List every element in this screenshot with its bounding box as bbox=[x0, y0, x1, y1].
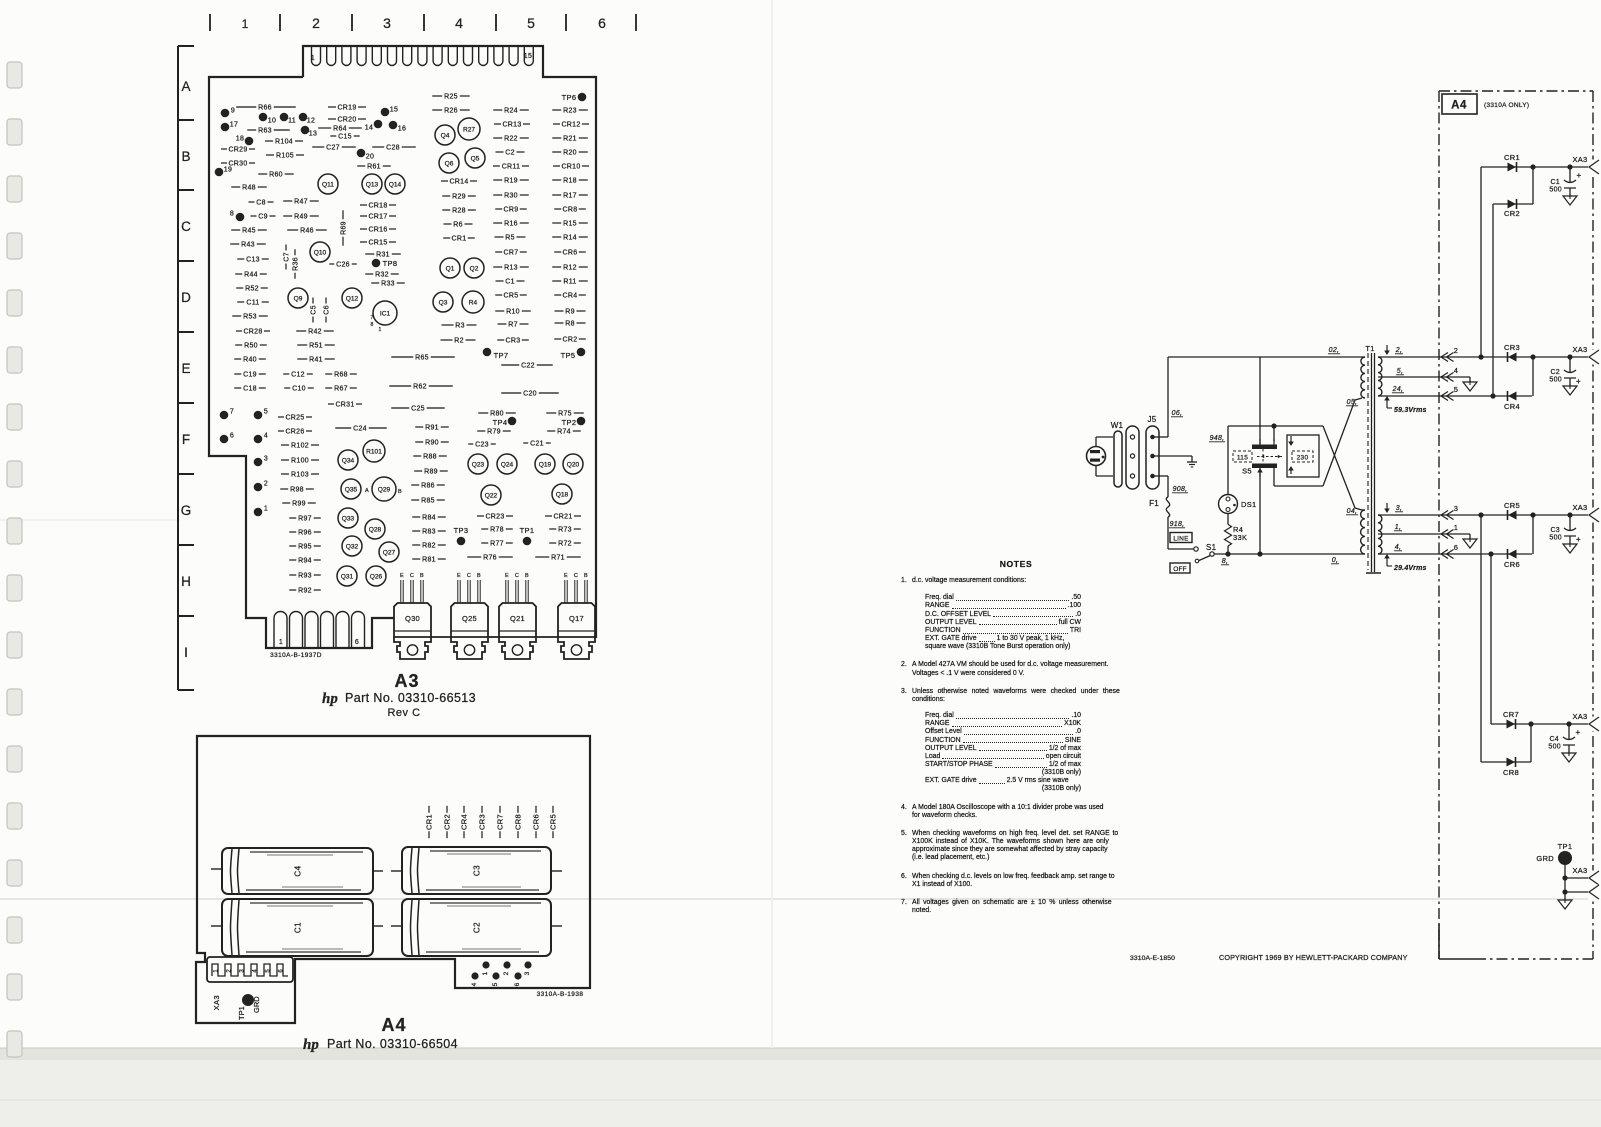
svg-text:R33: R33 bbox=[381, 280, 395, 287]
Q20 (circled) bbox=[563, 454, 583, 474]
svg-text:Q18: Q18 bbox=[556, 491, 569, 498]
svg-text:B: B bbox=[477, 573, 481, 579]
svg-text:10: 10 bbox=[268, 118, 276, 125]
Q33 (circled) bbox=[338, 508, 358, 528]
svg-text:R21: R21 bbox=[563, 135, 577, 142]
svg-text:hp: hp bbox=[322, 691, 338, 707]
svg-text:Q33: Q33 bbox=[342, 515, 355, 522]
R4 (circled) bbox=[462, 291, 484, 313]
A3 bottom connector fingers bbox=[274, 612, 287, 649]
svg-text:C27: C27 bbox=[326, 144, 340, 151]
svg-text:R86: R86 bbox=[421, 482, 435, 489]
svg-text:CR20: CR20 bbox=[337, 116, 356, 123]
Q10 (circled) bbox=[310, 242, 330, 262]
point 4 bbox=[254, 435, 263, 444]
svg-text:CR6: CR6 bbox=[532, 814, 541, 830]
svg-text:R99: R99 bbox=[292, 500, 306, 507]
svg-text:R47: R47 bbox=[294, 198, 308, 205]
svg-text:8,: 8, bbox=[1222, 558, 1228, 565]
svg-text:Q30: Q30 bbox=[405, 614, 420, 623]
Q19 (circled) bbox=[535, 454, 555, 474]
svg-text:C28: C28 bbox=[386, 144, 400, 151]
svg-text:CR21: CR21 bbox=[553, 513, 572, 520]
svg-text:14: 14 bbox=[365, 125, 373, 132]
svg-text:C18: C18 bbox=[243, 385, 257, 392]
plug connector body bbox=[1126, 426, 1139, 489]
diode CR2 bbox=[1508, 200, 1517, 209]
svg-text:13: 13 bbox=[309, 131, 317, 138]
point 17 bbox=[221, 123, 230, 132]
svg-text:R36: R36 bbox=[292, 257, 299, 271]
svg-text:R19: R19 bbox=[504, 177, 518, 184]
svg-text:R90: R90 bbox=[425, 439, 439, 446]
svg-text:A: A bbox=[365, 488, 369, 494]
svg-text:CR7: CR7 bbox=[504, 249, 519, 256]
svg-text:H: H bbox=[181, 574, 191, 589]
svg-text:115: 115 bbox=[1237, 455, 1248, 462]
svg-text:W1: W1 bbox=[1111, 421, 1124, 430]
svg-text:Rev C: Rev C bbox=[387, 707, 420, 719]
diode CR1 bbox=[1508, 163, 1517, 172]
svg-text:20: 20 bbox=[366, 154, 374, 161]
svg-text:TP8: TP8 bbox=[383, 259, 398, 268]
svg-text:5: 5 bbox=[264, 409, 268, 416]
svg-text:GRD: GRD bbox=[252, 996, 261, 1013]
svg-text:Q20: Q20 bbox=[567, 461, 580, 468]
svg-text:C8: C8 bbox=[256, 199, 266, 206]
svg-text:R5: R5 bbox=[505, 234, 515, 241]
svg-text:C5: C5 bbox=[310, 305, 317, 315]
svg-text:CR1: CR1 bbox=[425, 814, 434, 830]
svg-text:R92: R92 bbox=[298, 587, 312, 594]
A4 assembly label bbox=[1442, 94, 1477, 114]
svg-text:05,: 05, bbox=[1347, 399, 1358, 406]
diode CR2 line bbox=[1493, 203, 1533, 205]
switch S1 bbox=[1194, 547, 1198, 551]
svg-text:Q13: Q13 bbox=[366, 181, 379, 188]
svg-text:R65: R65 bbox=[415, 354, 429, 361]
svg-text:CR23: CR23 bbox=[485, 513, 504, 520]
svg-text:R95: R95 bbox=[298, 543, 312, 550]
svg-text:R104: R104 bbox=[275, 138, 293, 145]
svg-text:R27: R27 bbox=[463, 126, 475, 133]
junction bbox=[1530, 512, 1535, 517]
svg-text:Q31: Q31 bbox=[341, 573, 354, 580]
transistor Q25 bbox=[451, 603, 488, 637]
svg-text:R52: R52 bbox=[245, 285, 259, 292]
svg-text:TP1: TP1 bbox=[520, 526, 535, 535]
svg-text:6: 6 bbox=[230, 433, 234, 440]
wire plug to cord bbox=[1095, 437, 1097, 447]
svg-text:XA3: XA3 bbox=[1572, 503, 1587, 512]
junction bbox=[1530, 354, 1535, 359]
point 20 bbox=[357, 149, 366, 158]
svg-text:1: 1 bbox=[279, 639, 283, 646]
29.4Vrms measurement bbox=[1386, 557, 1388, 566]
svg-text:R32: R32 bbox=[375, 271, 389, 278]
junction bbox=[1478, 512, 1483, 517]
XA3 edge connector (A4 board) bbox=[207, 957, 293, 982]
point 5 bbox=[254, 411, 263, 420]
svg-text:CR2: CR2 bbox=[443, 814, 452, 830]
svg-text:A: A bbox=[181, 79, 190, 94]
capacitor lead stubs bbox=[211, 868, 222, 870]
svg-text:CR3: CR3 bbox=[506, 337, 521, 344]
ruler ticks bbox=[209, 14, 211, 31]
svg-text:C23: C23 bbox=[475, 441, 489, 448]
junction bbox=[1530, 164, 1535, 169]
grid row bracket bbox=[177, 46, 179, 690]
svg-text:0,: 0, bbox=[1332, 557, 1338, 564]
junction bbox=[1562, 875, 1567, 880]
R101 (circled) bbox=[363, 440, 385, 462]
svg-text:R23: R23 bbox=[563, 107, 577, 114]
svg-text:CR10: CR10 bbox=[561, 163, 580, 170]
transistor Q17 bbox=[558, 603, 595, 637]
svg-text:500: 500 bbox=[1549, 377, 1562, 384]
svg-text:Q19: Q19 bbox=[539, 461, 552, 468]
power plug W1 bbox=[1087, 447, 1106, 466]
connector J5 bbox=[1146, 426, 1159, 489]
svg-text:C: C bbox=[515, 573, 519, 579]
svg-text:S5: S5 bbox=[1242, 467, 1252, 476]
svg-text:R81: R81 bbox=[422, 556, 436, 563]
svg-text:CR8: CR8 bbox=[1503, 768, 1519, 777]
svg-text:R60: R60 bbox=[269, 171, 283, 178]
svg-text:+: + bbox=[1577, 171, 1582, 180]
svg-text:R72: R72 bbox=[558, 540, 572, 547]
svg-text:E: E bbox=[457, 573, 461, 579]
svg-text:19: 19 bbox=[224, 167, 232, 174]
svg-text:+: + bbox=[1576, 377, 1581, 386]
svg-text:TP3: TP3 bbox=[454, 526, 469, 535]
S5 230V jumper loop bbox=[1287, 435, 1319, 477]
svg-text:15: 15 bbox=[524, 53, 532, 60]
wire DS1 to node 948 bbox=[1227, 426, 1229, 495]
secondary tap 2 bbox=[1378, 356, 1589, 358]
svg-text:8: 8 bbox=[370, 322, 373, 328]
svg-text:R91: R91 bbox=[425, 424, 439, 431]
svg-text:B: B bbox=[420, 573, 424, 579]
svg-text:CR4: CR4 bbox=[563, 292, 578, 299]
svg-text:6: 6 bbox=[1454, 543, 1458, 552]
svg-text:R29: R29 bbox=[452, 193, 466, 200]
svg-text:CR3: CR3 bbox=[478, 814, 487, 830]
svg-text:1: 1 bbox=[242, 17, 249, 31]
ground return pin 4 bbox=[1452, 376, 1470, 378]
lamp DS1 bbox=[1219, 495, 1238, 514]
svg-text:24,: 24, bbox=[1392, 386, 1404, 393]
svg-text:C7: C7 bbox=[283, 252, 290, 262]
svg-text:R80: R80 bbox=[490, 410, 504, 417]
svg-text:XA3: XA3 bbox=[1572, 712, 1587, 721]
svg-text:11: 11 bbox=[288, 118, 296, 125]
svg-text:Q22: Q22 bbox=[485, 492, 498, 499]
svg-text:3310A-B-1938: 3310A-B-1938 bbox=[537, 991, 584, 998]
Q18 (circled) bbox=[552, 484, 572, 504]
T1 secondary winding (bottom) bbox=[1378, 515, 1382, 554]
svg-text:Q24: Q24 bbox=[501, 461, 514, 468]
svg-text:R17: R17 bbox=[563, 192, 577, 199]
svg-text:F: F bbox=[182, 432, 190, 447]
svg-text:R89: R89 bbox=[424, 468, 438, 475]
rectifier CR7/CR8 feed wires bbox=[1480, 515, 1482, 762]
svg-text:XA3: XA3 bbox=[1572, 345, 1587, 354]
XA3 output (C4) bbox=[1588, 717, 1601, 732]
point 13 bbox=[301, 126, 310, 135]
svg-text:A4: A4 bbox=[381, 1015, 406, 1035]
svg-text:R66: R66 bbox=[258, 104, 272, 111]
svg-text:R69: R69 bbox=[340, 221, 347, 235]
svg-text:Q5: Q5 bbox=[471, 155, 480, 162]
svg-text:Q27: Q27 bbox=[383, 549, 396, 556]
svg-text:5: 5 bbox=[527, 15, 535, 31]
svg-text:2,: 2, bbox=[1395, 347, 1402, 354]
svg-text:R28: R28 bbox=[452, 207, 466, 214]
svg-text:CR4: CR4 bbox=[460, 814, 469, 830]
svg-text:C19: C19 bbox=[243, 371, 257, 378]
diode CR7 line bbox=[1491, 723, 1589, 725]
svg-text:1: 1 bbox=[482, 971, 489, 975]
XA3 pin 3 bbox=[1441, 511, 1448, 520]
Q22 (circled) bbox=[481, 485, 501, 505]
svg-text:CR26: CR26 bbox=[285, 428, 304, 435]
secondary tap 24 bbox=[1378, 395, 1532, 397]
svg-text:12: 12 bbox=[307, 118, 315, 125]
svg-text:R45: R45 bbox=[242, 227, 256, 234]
svg-text:XA3: XA3 bbox=[1572, 866, 1587, 875]
svg-text:Q35: Q35 bbox=[345, 486, 358, 493]
svg-text:T1: T1 bbox=[1365, 344, 1374, 353]
svg-text:hp: hp bbox=[303, 1037, 319, 1053]
svg-text:4: 4 bbox=[264, 433, 268, 440]
svg-text:Q21: Q21 bbox=[510, 614, 525, 623]
svg-text:TP5: TP5 bbox=[561, 351, 576, 360]
capacitor C1 (can) bbox=[222, 899, 373, 956]
svg-text:R68: R68 bbox=[334, 371, 348, 378]
svg-text:C: C bbox=[467, 573, 471, 579]
junction bbox=[1562, 889, 1567, 894]
svg-text:R64: R64 bbox=[333, 125, 347, 132]
svg-text:1: 1 bbox=[311, 55, 315, 62]
svg-text:CR11: CR11 bbox=[502, 163, 521, 170]
svg-text:R31: R31 bbox=[376, 251, 390, 258]
secondary tap 4 bbox=[1378, 553, 1532, 555]
svg-text:3: 3 bbox=[264, 456, 268, 463]
svg-text:XA3: XA3 bbox=[212, 995, 221, 1010]
A3 transistor interconnect wires bbox=[431, 636, 451, 638]
Q11 (circled) bbox=[318, 174, 338, 194]
svg-text:4,: 4, bbox=[1395, 544, 1401, 551]
svg-text:R41: R41 bbox=[309, 356, 323, 363]
svg-text:CR19: CR19 bbox=[337, 104, 356, 111]
svg-text:R12: R12 bbox=[563, 264, 577, 271]
svg-text:R82: R82 bbox=[422, 542, 436, 549]
point 1 bbox=[254, 508, 263, 517]
diode CR8 line bbox=[1481, 761, 1531, 763]
svg-text:C1: C1 bbox=[1550, 179, 1560, 186]
capacitor C3 (can) bbox=[402, 847, 551, 894]
svg-text:R9: R9 bbox=[565, 308, 575, 315]
svg-text:C10: C10 bbox=[292, 385, 306, 392]
svg-text:R11: R11 bbox=[563, 278, 576, 285]
fuse F1 bbox=[1166, 497, 1169, 517]
svg-text:TP7: TP7 bbox=[494, 351, 509, 360]
point 8 bbox=[236, 213, 245, 222]
svg-text:R8: R8 bbox=[565, 320, 575, 327]
junction bbox=[1271, 423, 1276, 428]
wires to XA3 ground pins bbox=[1565, 877, 1589, 879]
junction bbox=[1528, 721, 1533, 726]
wire S5 to primary taps (crossover) bbox=[1274, 485, 1323, 487]
svg-text:TP4: TP4 bbox=[493, 418, 508, 427]
svg-text:R75: R75 bbox=[558, 410, 572, 417]
svg-text:C6: C6 bbox=[323, 305, 330, 315]
svg-text:R96: R96 bbox=[298, 529, 312, 536]
Q2 (circled) bbox=[464, 258, 484, 278]
Q27 (circled) bbox=[379, 542, 399, 562]
point 14 bbox=[374, 120, 383, 129]
svg-text:E: E bbox=[564, 573, 568, 579]
svg-text:R16: R16 bbox=[504, 220, 518, 227]
capacitor C2 500 bbox=[1569, 357, 1571, 372]
svg-text:7: 7 bbox=[370, 315, 373, 321]
svg-text:R98: R98 bbox=[290, 486, 304, 493]
svg-text:R14: R14 bbox=[563, 234, 577, 241]
capacitor C1 500 bbox=[1569, 167, 1571, 182]
svg-text:Q11: Q11 bbox=[322, 181, 334, 188]
svg-text:R46: R46 bbox=[300, 227, 314, 234]
svg-text:R18: R18 bbox=[563, 177, 577, 184]
svg-text:CR6: CR6 bbox=[1504, 560, 1520, 569]
svg-text:R50: R50 bbox=[244, 342, 258, 349]
Q3 (circled) bbox=[433, 292, 453, 312]
svg-text:R88: R88 bbox=[423, 453, 437, 460]
junction C1 bbox=[1567, 164, 1572, 169]
svg-text:R61: R61 bbox=[367, 163, 381, 170]
svg-text:E: E bbox=[181, 361, 190, 376]
junction C4 bbox=[1566, 721, 1571, 726]
svg-text:R20: R20 bbox=[563, 149, 577, 156]
svg-text:6: 6 bbox=[355, 639, 359, 646]
svg-text:500: 500 bbox=[1548, 744, 1561, 751]
svg-text:B: B bbox=[525, 573, 529, 579]
svg-text:CR14: CR14 bbox=[449, 178, 468, 185]
svg-text:C4: C4 bbox=[1549, 736, 1559, 743]
binder holes bbox=[7, 62, 22, 88]
svg-text:17: 17 bbox=[230, 122, 238, 129]
svg-text:CR6: CR6 bbox=[563, 249, 578, 256]
test point TP8 bbox=[372, 259, 381, 268]
point 12 bbox=[299, 113, 308, 122]
point 19 bbox=[215, 168, 224, 177]
point 9 bbox=[221, 109, 230, 118]
wire J5 bottom pin to fuse bbox=[1152, 475, 1168, 477]
Q32 (circled) bbox=[342, 536, 362, 556]
svg-text:R77: R77 bbox=[490, 540, 504, 547]
svg-text:CR12: CR12 bbox=[561, 121, 580, 128]
junction bbox=[1488, 551, 1493, 556]
svg-text:948,: 948, bbox=[1210, 435, 1225, 442]
svg-text:R2: R2 bbox=[454, 337, 464, 344]
svg-text:R73: R73 bbox=[558, 526, 572, 533]
svg-text:R62: R62 bbox=[413, 383, 427, 390]
S5 115V position label bbox=[1233, 451, 1252, 462]
svg-text:C3: C3 bbox=[1550, 527, 1560, 534]
svg-text:Part No. 03310-66513: Part No. 03310-66513 bbox=[345, 691, 476, 705]
XA3 output (C2) bbox=[1588, 350, 1601, 365]
svg-text:5: 5 bbox=[1454, 385, 1458, 394]
svg-text:F1: F1 bbox=[1149, 499, 1159, 508]
svg-text:CR3: CR3 bbox=[1504, 343, 1520, 352]
svg-text:1: 1 bbox=[1454, 523, 1458, 532]
svg-text:Q3: Q3 bbox=[439, 299, 448, 306]
svg-text:COPYRIGHT 1969 BY HEWLETT-PACK: COPYRIGHT 1969 BY HEWLETT-PACKARD COMPAN… bbox=[1219, 953, 1408, 962]
capacitor C4 500 bbox=[1568, 724, 1570, 739]
Q6 (circled) bbox=[439, 153, 459, 173]
svg-text:R15: R15 bbox=[563, 220, 577, 227]
svg-text:CR5: CR5 bbox=[504, 292, 519, 299]
chassis ground bbox=[1191, 456, 1193, 462]
svg-text:CR4: CR4 bbox=[1504, 402, 1520, 411]
point 2 bbox=[254, 483, 263, 492]
diode CR1 line bbox=[1481, 166, 1589, 168]
Q24 (circled) bbox=[497, 454, 517, 474]
svg-text:CR2: CR2 bbox=[563, 336, 578, 343]
svg-text:CR1: CR1 bbox=[1504, 153, 1520, 162]
svg-text:C1: C1 bbox=[294, 922, 303, 933]
point 3 bbox=[254, 458, 263, 467]
XA3 output (C3) bbox=[1588, 508, 1601, 523]
svg-text:J5: J5 bbox=[1147, 415, 1156, 424]
svg-text:B: B bbox=[181, 149, 190, 164]
svg-text:C: C bbox=[574, 573, 578, 579]
svg-text:CR1: CR1 bbox=[452, 235, 467, 242]
svg-text:Q1: Q1 bbox=[446, 265, 455, 272]
Q35 (circled) bbox=[341, 479, 361, 499]
diode CR6 bbox=[1508, 550, 1517, 559]
svg-text:CR28: CR28 bbox=[243, 328, 262, 335]
svg-text:I: I bbox=[184, 645, 188, 660]
svg-text:C2: C2 bbox=[473, 922, 482, 933]
A3 top connector fingers bbox=[312, 46, 321, 66]
svg-text:R85: R85 bbox=[421, 497, 435, 504]
svg-text:500: 500 bbox=[1549, 187, 1562, 194]
svg-text:06,: 06, bbox=[1172, 410, 1183, 417]
junction bbox=[1478, 354, 1483, 359]
Q26 (circled) bbox=[366, 566, 386, 586]
cord end bbox=[1114, 431, 1122, 487]
svg-text:IC1: IC1 bbox=[380, 310, 391, 317]
Q29 (circled) bbox=[372, 477, 396, 501]
svg-text:7: 7 bbox=[230, 409, 234, 416]
svg-text:C25: C25 bbox=[411, 405, 425, 412]
svg-text:B: B bbox=[398, 489, 402, 495]
svg-text:B: B bbox=[584, 573, 588, 579]
point 11 bbox=[280, 113, 289, 122]
diode CR5 bbox=[1508, 511, 1517, 520]
XA3 pin 5 bbox=[1441, 392, 1448, 401]
svg-text:TP1: TP1 bbox=[1558, 842, 1573, 851]
Q9 (circled) bbox=[288, 288, 308, 308]
point 15 bbox=[381, 108, 390, 117]
svg-text:Q10: Q10 bbox=[314, 249, 327, 256]
secondary tap 5 bbox=[1378, 376, 1452, 378]
svg-text:C11: C11 bbox=[246, 299, 259, 306]
capacitor C4 (can) bbox=[222, 848, 373, 894]
svg-text:C: C bbox=[181, 219, 191, 234]
capacitor C2 (can) bbox=[402, 899, 551, 956]
